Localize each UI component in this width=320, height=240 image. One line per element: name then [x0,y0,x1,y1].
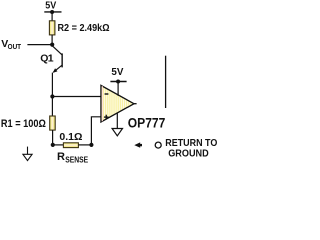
svg-text:5V: 5V [45,1,56,12]
label RETURN TO GROUND [165,138,217,159]
op-amp non-inverting input plus sign [104,115,109,120]
svg-text:R1 = 100Ω: R1 = 100Ω [1,118,46,130]
wire R2 bottom to VOUT node [51,35,53,45]
wire +5V bar to op-amp V+ pin [117,82,119,96]
transistor Q1 base bar [61,53,63,67]
svg-text:OUT: OUT [8,42,22,51]
node VOUT junction dot [50,43,54,47]
op-amp inverting input minus sign [105,93,109,95]
svg-text:R2 = 2.49kΩ: R2 = 2.49kΩ [58,22,110,34]
resistor R_SENSE [63,143,78,148]
ground symbol (below op-amp) [112,129,122,136]
current direction arrowhead (return line) [134,142,142,147]
resistor R2 [49,21,55,35]
node return junction dot [89,143,93,147]
wire sense-node to R_SENSE left [53,144,64,146]
op-amp output stub [134,103,137,105]
wire Q1 emitter down to inverting-input node [51,73,53,97]
svg-text:5V: 5V [111,67,123,78]
wire node to op-amp inverting input [52,96,101,98]
svg-text:SENSE: SENSE [65,155,89,163]
node return-to-ground terminal circle [155,142,161,148]
transistor Q1 collector lead (diagonal) [52,46,62,55]
junction dot on +5V bar [50,10,54,14]
node emitter/R1/op-amp junction dot [50,94,54,98]
wire from +5V bar to R2 top [51,12,53,21]
label R_SENSE [57,151,89,164]
transistor Q1 emitter lead (diagonal) [53,65,62,72]
svg-text:0.1Ω: 0.1Ω [59,132,82,143]
transistor Q1 label [40,52,54,64]
svg-text:R: R [57,151,65,163]
junction dot on op-amp +5V bar [116,80,120,84]
svg-text:1: 1 [48,52,54,64]
wire VOUT label to node [27,44,52,46]
power +5V rail bar [44,11,61,13]
wire load line (right) [165,56,167,108]
wire op-amp V- pin to ground [116,113,118,128]
node R1/R_SENSE junction dot [51,143,55,147]
wire node down to R1 top [51,97,53,117]
svg-text:OP777: OP777 [128,116,166,131]
svg-text:GROUND: GROUND [168,148,209,159]
ground symbol (bottom left) [23,147,32,161]
wire return node up to op-amp non-inverting input [91,117,101,145]
label VOUT [1,38,21,51]
power +5V rail bar (op-amp supply) [110,81,126,83]
wire R_SENSE right to return node [78,144,91,146]
wire R1 bottom to sense rail [52,130,54,145]
resistor R1 [50,116,56,130]
op-amp U1 OP777 [101,85,134,122]
transistor Q1 emitter arrowhead [53,68,58,73]
